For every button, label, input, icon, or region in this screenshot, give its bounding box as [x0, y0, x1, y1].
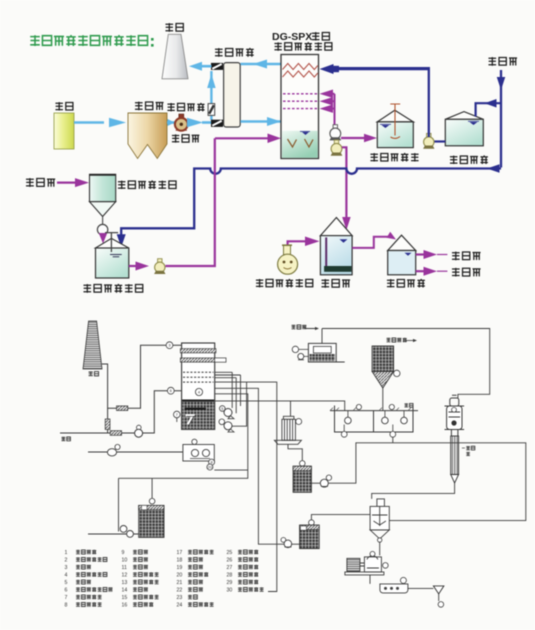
spray headers (purple) [283, 93, 318, 95]
bag filter unit [274, 416, 301, 444]
svg-text:12: 12 [122, 573, 128, 579]
svg-text:8: 8 [65, 603, 68, 609]
tank2 feed pump [281, 538, 286, 543]
wire pump to accident tank [341, 137, 366, 139]
svg-text:28: 28 [227, 573, 233, 579]
feeder box 5TA [292, 325, 307, 330]
pump B riser [225, 382, 247, 426]
wire conveyor to slag hopper [408, 587, 434, 589]
screw conveyor boat [380, 584, 408, 593]
demister zigzags [283, 64, 318, 70]
filtrate twin tank [330, 406, 418, 433]
svg-text:20: 20 [208, 464, 213, 469]
spray nozzle rows [183, 371, 214, 373]
process water tank 工艺水箱 [445, 112, 483, 120]
slurry tank dark 1 [288, 444, 302, 460]
svg-text:10: 10 [122, 558, 128, 564]
svg-text:7: 7 [65, 595, 68, 601]
centrifuge unit [345, 556, 384, 575]
wire clean gas duct to chimney [108, 345, 181, 408]
oxide slurry tank left [151, 478, 153, 498]
svg-text:18: 18 [177, 558, 183, 564]
wire centrifuge to conveyor [369, 575, 371, 584]
oxidation blower 氧化槽鼓风机 [256, 279, 313, 287]
label 烟道挡板 [167, 103, 204, 111]
recirculation pump B [219, 419, 225, 425]
outlet 脱硫渣 [416, 270, 424, 272]
wire duct dust collector to fan [167, 121, 175, 124]
wire aux line left [88, 451, 183, 453]
stripper column [445, 395, 465, 436]
svg-text:22: 22 [177, 588, 183, 594]
svg-text:26: 26 [227, 558, 233, 564]
title 工艺流程示意图如下 [30, 35, 147, 46]
svg-text:25: 25 [227, 550, 233, 556]
wire bleed to oxidation tank [342, 147, 346, 218]
magnesium oxide feed 氧化镁 [26, 178, 55, 187]
slag water separator 渣水分离 [387, 279, 425, 288]
bleed pump yellow [334, 140, 338, 144]
wire column bottom to thickener [372, 483, 455, 499]
branch into water tank [476, 103, 501, 116]
wire fan to heat exchanger tee [187, 118, 203, 128]
wire tower to HX top [241, 63, 282, 66]
svg-text:16: 16 [122, 603, 128, 609]
svg-text:20: 20 [177, 573, 183, 579]
wire chimney downcomer [102, 364, 108, 433]
wire bleed line down [215, 388, 284, 544]
damper tee box top [212, 63, 223, 69]
dust collector 除尘器 [135, 102, 164, 111]
wire pump riser to tower wash [338, 68, 429, 137]
pool agitators [288, 139, 314, 147]
wire clean gas to chimney [197, 65, 212, 68]
recirculation pump A [220, 406, 226, 412]
wire raw gas duct boiler to tower [60, 391, 181, 433]
svg-text:15: 15 [122, 595, 128, 601]
wire long line to filtrate tank [215, 401, 345, 411]
tank1 pump [311, 482, 320, 484]
svg-text:11: 11 [122, 565, 127, 571]
tower slurry pool [282, 131, 318, 158]
accident slurry tank 事故浆液槽 [377, 110, 413, 122]
thickener [377, 499, 385, 507]
svg-text:19: 19 [177, 565, 183, 571]
slurry zone hatched [182, 400, 214, 429]
storage tank outlet pump [129, 265, 136, 267]
svg-text:30: 30 [227, 588, 233, 594]
svg-text:24: 24 [177, 603, 183, 609]
svg-text:13: 13 [122, 580, 128, 586]
wire blower to oxidation tank [288, 241, 305, 244]
wire tank1 pump to thickener [328, 443, 526, 521]
clean gas arrow into tower top (navy) [338, 68, 429, 70]
svg-text:23: 23 [177, 595, 183, 601]
wire filtrate out [392, 437, 394, 443]
outlet 外排水 [416, 253, 424, 255]
svg-text:2: 2 [65, 558, 68, 564]
bw fan [137, 425, 142, 430]
left tank pumps [88, 478, 139, 534]
wire thickener link to tank2 [311, 515, 370, 520]
svg-text:27: 27 [227, 565, 233, 571]
induced draft fan 引风机 [172, 134, 199, 142]
svg-text:DG-SPX: DG-SPX [272, 31, 312, 43]
slaking tank 氧化镁熟化槽 [118, 180, 176, 189]
wire skid link line [214, 469, 248, 471]
circulation pump white [333, 125, 337, 129]
svg-text:1: 1 [65, 550, 68, 556]
bypass duct vertical with damper 烟道挡板 [210, 71, 212, 120]
damper tee box bottom [212, 120, 223, 126]
accident tank agitator [390, 104, 400, 138]
svg-text:5: 5 [65, 580, 68, 586]
wire third header down [215, 382, 277, 591]
rotary valve circle [102, 217, 104, 225]
svg-text:14: 14 [122, 588, 128, 594]
wire gas duct boiler to dust collector [74, 121, 104, 124]
wire top long line to column [322, 329, 490, 399]
svg-text:6: 6 [65, 588, 68, 594]
instrument circles on gas ducts [166, 342, 173, 349]
process water pump [432, 140, 445, 142]
svg-text:29: 29 [227, 580, 233, 586]
bw absorber tower [182, 343, 215, 429]
wire feeder bottom line [291, 362, 345, 416]
oxidation tank 氧化槽 [321, 279, 350, 288]
demister layers [180, 349, 216, 353]
wires tower right headers [215, 372, 237, 377]
pump skid below tower [183, 445, 214, 462]
silo hopper 6100 [387, 338, 407, 343]
wire to oxide tank feed [119, 394, 248, 479]
wire HX to tower bottom [241, 120, 282, 123]
slurry tank dark 2 [309, 520, 315, 526]
svg-text:9: 9 [122, 550, 125, 556]
storage tank 氢氧化镁储罐 [96, 238, 129, 248]
svg-text:4: 4 [65, 573, 68, 579]
svg-text:21: 21 [177, 580, 183, 586]
chimney 烟囱 [165, 23, 183, 32]
slurry feed arrow into pool [215, 137, 269, 139]
bypass damper on downcomer [105, 419, 110, 430]
long water line with hops [121, 169, 501, 235]
inlet damper [110, 431, 121, 436]
heat exchanger 热交换器 [215, 48, 254, 57]
boiler 锅炉 [55, 102, 72, 110]
svg-text:17: 17 [177, 550, 183, 556]
outlet damper [117, 406, 128, 411]
wire slurry feed loop to tower [166, 138, 215, 266]
svg-text:3: 3 [65, 565, 68, 571]
process water supply 工艺水 [488, 57, 517, 66]
